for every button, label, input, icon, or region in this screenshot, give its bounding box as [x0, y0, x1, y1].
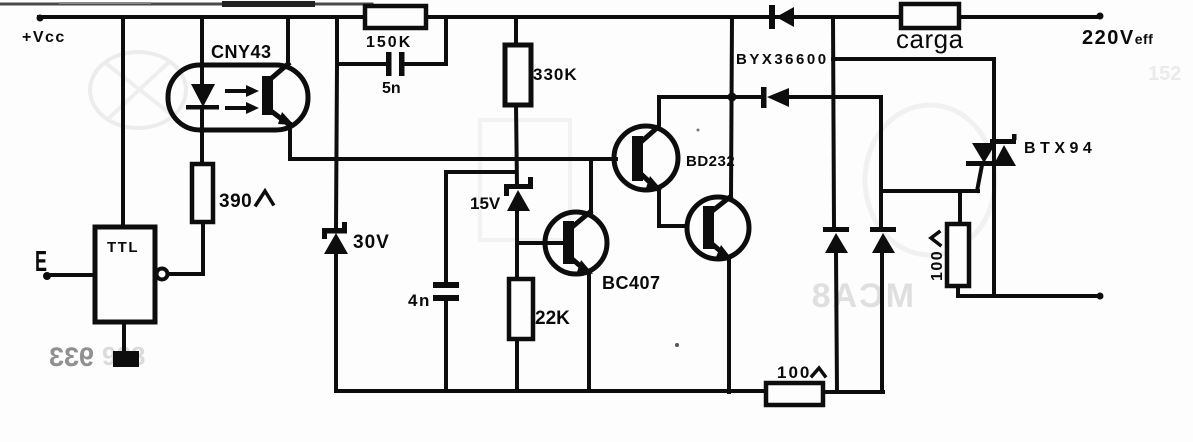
- gate U1 TTL box: [95, 227, 155, 322]
- transistor Q3 collector stroke: [711, 197, 730, 212]
- wire: BD232 emitter down and to Q3 base: [659, 189, 687, 226]
- LED of optocoupler (triangle): [191, 84, 215, 107]
- wire: output line: [958, 294, 1100, 298]
- wire: E input to TTL: [47, 273, 95, 277]
- zener D5 30V cathode bar: [322, 222, 347, 239]
- diode D4 triangle: [872, 233, 895, 253]
- svg-text:BTX94: BTX94: [1024, 140, 1096, 157]
- zener D6 15V cathode bar: [504, 177, 533, 196]
- wire: rail to TTL: [121, 17, 125, 227]
- wire: 330K down to long node line and 15V zener: [516, 105, 517, 186]
- wire: phototransistor emitter down: [288, 124, 292, 159]
- wire: triac MT1 down: [992, 144, 996, 296]
- light arrow 1: [227, 85, 259, 97]
- wire: LED cathode down to R 390: [200, 109, 204, 166]
- wire: BC407 emitter to bottom rail: [587, 273, 591, 391]
- wire: triac gate diagonal: [977, 165, 982, 191]
- diode D1 cathode bar: [769, 5, 775, 29]
- transistor Q2 emitter stroke with arrow: [641, 174, 662, 190]
- resistor R4 22K body: [509, 279, 533, 339]
- transistor Q3 circle: [687, 197, 749, 259]
- label 100 ohm: [777, 363, 825, 382]
- svg-text:15V: 15V: [470, 194, 501, 213]
- svg-text:330K: 330K: [533, 65, 578, 84]
- wire: diode line to right corner: [789, 97, 881, 227]
- wire: D3 down to bottom wire: [836, 253, 837, 392]
- svg-text:152: 152: [1148, 63, 1181, 85]
- capacitor C2 4n plates: [433, 282, 459, 301]
- resistor R2 150K body: [365, 6, 426, 28]
- zener D5 30V triangle: [324, 233, 348, 254]
- zener D6 15V triangle: [507, 190, 530, 211]
- diode D2 cathode bar: [761, 87, 767, 108]
- wire: long node line (opto emitter to BD232 base): [290, 157, 616, 161]
- wire: R6 to output line: [956, 286, 960, 296]
- svg-text:100: 100: [929, 250, 946, 281]
- light arrow 2: [227, 102, 259, 114]
- optocoupler U2 CNY43 body: [168, 65, 308, 130]
- wire: TTL output to 390 resistor: [168, 222, 203, 274]
- wire: triac MT2 feed: [833, 59, 994, 141]
- transistor Q1 collector stroke: [571, 212, 590, 228]
- wire: 15V zener to base node: [515, 211, 519, 243]
- resistor R1 390 body: [192, 164, 213, 222]
- diode D3 triangle: [825, 233, 848, 253]
- wire: rail to LED anode: [200, 17, 204, 86]
- inverter bubble on TTL output: [157, 269, 168, 280]
- diode D2 triangle: [767, 88, 789, 107]
- wire: first diode chain vertical from rail: [833, 17, 834, 227]
- LED cathode bar: [186, 105, 219, 110]
- wire: node line x336 (rail to 30V zener): [336, 17, 337, 229]
- wire: Q3 emitter to bottom rail: [727, 258, 731, 392]
- triac top bar: [990, 139, 1016, 144]
- diode D4 cathode bar: [870, 227, 896, 232]
- svg-text:220Veff: 220Veff: [1082, 27, 1153, 49]
- transistor Q3 emitter stroke with arrow: [711, 243, 732, 259]
- resistor R5 100 body: [766, 383, 823, 405]
- phototransistor collector stroke: [267, 64, 288, 82]
- triac right triangle: [993, 145, 1016, 166]
- wire: bottom rail: [336, 389, 768, 393]
- svg-text:100: 100: [777, 363, 811, 382]
- wire: 5n cap left lead: [337, 62, 387, 66]
- load box carga: [901, 4, 959, 28]
- diode D1 triangle: [776, 7, 794, 27]
- node: output terminal dot: [1097, 293, 1104, 300]
- wire: 22K to bottom rail: [515, 339, 519, 391]
- node: 220V terminal dot: [1097, 13, 1104, 20]
- label E input: [35, 246, 47, 278]
- wire: TTL ground pin: [122, 322, 126, 353]
- svg-text:MCA8: MCA8: [810, 277, 914, 315]
- capacitor C1 5n plates: [386, 52, 405, 76]
- node: +Vcc terminal dot: [37, 15, 44, 22]
- node: E input terminal dot: [43, 272, 51, 280]
- transistor Q1 BC407 circle: [545, 212, 607, 274]
- transistor Q2 collector stroke: [641, 127, 658, 142]
- transistor Q2 base bar: [632, 136, 643, 181]
- svg-text:933: 933: [49, 342, 94, 372]
- svg-text:BC407: BC407: [602, 273, 661, 293]
- transistor Q3 base bar: [703, 206, 714, 249]
- wire: 4n cap to bottom rail: [444, 301, 448, 391]
- phototransistor base bar: [262, 76, 273, 115]
- wire: +Vcc top rail: [39, 15, 1100, 19]
- svg-text:BYX36600: BYX36600: [736, 51, 829, 68]
- svg-text:TTL: TTL: [107, 239, 139, 256]
- svg-text:5n: 5n: [382, 80, 401, 97]
- wire: 5n cap right lead: [404, 62, 446, 66]
- wire: base node down to 22K: [515, 243, 519, 279]
- wire: 5n right lead up to rail: [444, 17, 448, 64]
- svg-text:+Vcc: +Vcc: [22, 29, 66, 46]
- triac bottom bar: [966, 161, 995, 166]
- wire: rail to 330K: [514, 17, 518, 45]
- svg-text:carga: carga: [896, 24, 964, 54]
- transistor Q1 base bar: [563, 221, 574, 264]
- wire: second diode line: [659, 95, 762, 99]
- svg-text:22K: 22K: [535, 308, 570, 329]
- label 390 ohm: [219, 191, 273, 212]
- wire: bottom rail after R5: [823, 390, 883, 394]
- wire: gate to R6: [958, 191, 962, 224]
- triac TR1 symbol: [966, 134, 1017, 166]
- svg-text:30V: 30V: [353, 232, 390, 253]
- ground symbol (filled pad): [113, 351, 139, 367]
- label 100 ohm vertical: [929, 232, 946, 281]
- resistor R6 100 body: [947, 224, 969, 286]
- phototransistor emitter stroke with arrow: [267, 108, 294, 125]
- transistor Q1 emitter stroke with arrow: [571, 258, 593, 274]
- wire: BD232 collector up to diode line: [657, 97, 661, 128]
- wire: gate horizontal: [881, 189, 978, 193]
- node: junction dot diode line: [728, 93, 737, 102]
- wire: Q3 collector to top rail: [731, 17, 732, 197]
- wire: phototransistor collector to rail: [286, 17, 290, 64]
- wire: 30V zener to bottom rail: [334, 254, 338, 391]
- svg-text:390: 390: [219, 191, 252, 212]
- diode D3 cathode bar: [823, 227, 849, 232]
- svg-text:150K: 150K: [366, 34, 412, 51]
- wire: BC407 collector up to long node line: [589, 159, 593, 213]
- transistor Q2 BD232 circle: [614, 126, 678, 190]
- svg-text:CNY43: CNY43: [211, 42, 272, 62]
- svg-text:4n: 4n: [408, 291, 431, 310]
- svg-text:BD232: BD232: [686, 153, 735, 170]
- wire: base node to BC407 base: [517, 241, 564, 245]
- wire: D4 down to bottom wire: [880, 253, 884, 392]
- resistor R3 330K body: [505, 45, 531, 105]
- wire: 4n cap top lead: [446, 172, 516, 284]
- triac left triangle: [972, 143, 996, 163]
